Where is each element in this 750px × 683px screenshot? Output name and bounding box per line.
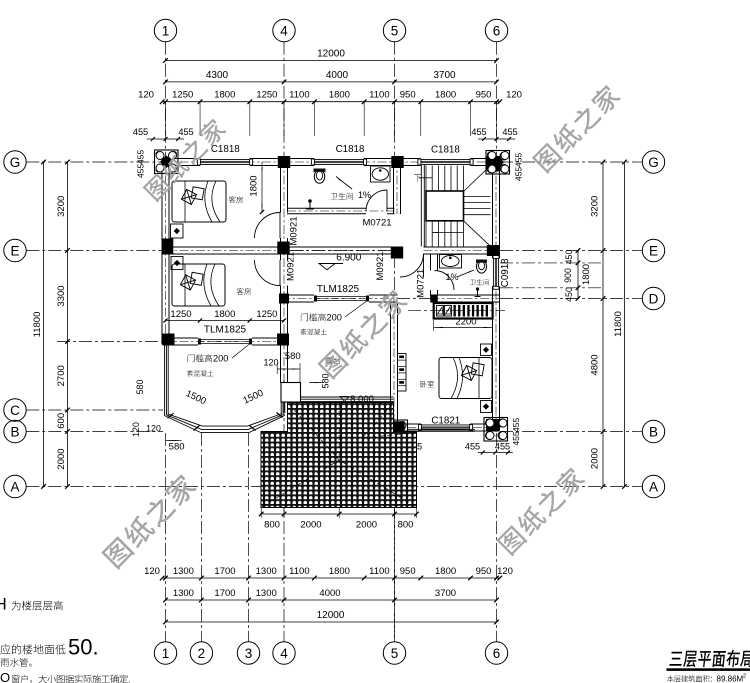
svg-text:H: H: [0, 595, 7, 614]
svg-text:2000: 2000: [56, 448, 67, 469]
svg-text:3: 3: [245, 646, 253, 661]
svg-text:3700: 3700: [433, 70, 456, 81]
svg-text:800: 800: [398, 520, 414, 531]
svg-text:M0921: M0921: [286, 252, 297, 281]
svg-text:455: 455: [514, 153, 524, 168]
svg-text:C1818: C1818: [211, 144, 240, 155]
bottom dimension chains: [162, 577, 500, 579]
svg-text:950: 950: [476, 90, 492, 101]
svg-text:A: A: [649, 479, 658, 494]
svg-text:C1818: C1818: [431, 145, 460, 156]
svg-text:11800: 11800: [32, 312, 43, 338]
doors: [255, 190, 455, 290]
svg-text:950: 950: [476, 566, 492, 577]
bathroom 2 fixtures: [440, 255, 462, 269]
svg-text:950: 950: [400, 566, 416, 577]
staircase: [426, 166, 491, 247]
svg-text:455: 455: [136, 164, 146, 179]
svg-text:455: 455: [133, 127, 148, 137]
tiled roof: [261, 403, 417, 508]
svg-text:1100: 1100: [289, 90, 309, 101]
svg-text:2: 2: [198, 646, 206, 661]
svg-text:1250: 1250: [170, 309, 191, 320]
svg-text:1800: 1800: [435, 90, 456, 101]
svg-text:120: 120: [497, 566, 513, 577]
bed guest room 2: [172, 264, 225, 306]
top dimension chains: [166, 60, 497, 62]
svg-text:4: 4: [280, 23, 288, 38]
svg-text:E: E: [649, 243, 658, 258]
svg-text:G: G: [648, 155, 659, 170]
svg-text:120: 120: [138, 90, 154, 101]
svg-text:1: 1: [162, 23, 170, 38]
svg-text:11800: 11800: [613, 311, 624, 337]
svg-text:1250: 1250: [256, 309, 277, 320]
svg-text:120: 120: [263, 358, 278, 368]
svg-text:C: C: [10, 403, 20, 418]
svg-text:900: 900: [563, 268, 573, 283]
svg-text:E: E: [10, 243, 19, 258]
svg-text:2700: 2700: [56, 365, 67, 386]
svg-text:1%: 1%: [445, 272, 458, 282]
svg-text:B: B: [10, 424, 19, 439]
svg-text:A: A: [10, 479, 19, 494]
svg-text:455: 455: [511, 418, 521, 433]
svg-text:4000: 4000: [319, 588, 340, 599]
svg-text:4000: 4000: [326, 70, 349, 81]
svg-text:450: 450: [564, 250, 574, 265]
svg-text:1700: 1700: [214, 566, 235, 577]
right dimension chains: [577, 251, 579, 299]
svg-text:1: 1: [162, 646, 170, 661]
svg-text:455: 455: [465, 442, 480, 452]
svg-text:1100: 1100: [369, 566, 389, 577]
svg-text:1300: 1300: [173, 588, 194, 599]
svg-text:455: 455: [136, 150, 146, 165]
svg-text:5: 5: [391, 646, 399, 661]
svg-text:455: 455: [514, 167, 524, 182]
svg-text:1300: 1300: [256, 588, 277, 599]
bay window railing: [165, 345, 285, 433]
svg-text:1300: 1300: [256, 566, 277, 577]
svg-text:4300: 4300: [206, 70, 229, 81]
interior dimensions: [261, 162, 263, 212]
svg-text:2: 2: [743, 674, 746, 680]
svg-text:120: 120: [146, 424, 161, 434]
lattice balustrade: [434, 303, 493, 319]
svg-text:G: G: [10, 155, 21, 170]
svg-text:580: 580: [135, 380, 145, 395]
svg-text:455: 455: [178, 127, 193, 137]
svg-text:1800: 1800: [214, 309, 235, 320]
svg-text:580: 580: [285, 351, 301, 362]
svg-text:1800: 1800: [329, 90, 350, 101]
svg-text:1%: 1%: [358, 190, 371, 200]
svg-text:C0918: C0918: [500, 258, 511, 287]
svg-text:580: 580: [169, 442, 185, 453]
svg-text:455: 455: [471, 127, 486, 137]
svg-text:6: 6: [493, 646, 501, 661]
svg-text:120: 120: [131, 422, 141, 437]
svg-text:2000: 2000: [590, 448, 601, 469]
svg-text:1800: 1800: [249, 175, 260, 196]
svg-text:6.900: 6.900: [336, 253, 361, 264]
windows: [200, 158, 250, 160]
svg-text:580: 580: [321, 373, 331, 388]
svg-text:1800: 1800: [581, 264, 592, 285]
svg-text:455: 455: [502, 127, 517, 137]
svg-text:1800: 1800: [329, 566, 350, 577]
svg-text:3300: 3300: [56, 285, 67, 306]
svg-text:1250: 1250: [172, 90, 193, 101]
svg-text:1800: 1800: [435, 566, 456, 577]
svg-text:50.: 50.: [68, 635, 99, 660]
grid axis bubbles: [154, 19, 176, 41]
svg-text:120: 120: [506, 90, 522, 101]
svg-text:800: 800: [264, 520, 280, 531]
terrace parapet: [284, 396, 394, 398]
svg-text:600: 600: [56, 413, 67, 429]
svg-text:D: D: [649, 291, 659, 306]
svg-text:TLM1825: TLM1825: [204, 325, 247, 336]
svg-text:M0721: M0721: [362, 218, 391, 229]
svg-text:6: 6: [493, 23, 501, 38]
svg-text:1700: 1700: [214, 588, 235, 599]
svg-text:C1818: C1818: [336, 144, 365, 155]
svg-text:3200: 3200: [590, 196, 601, 217]
bed guest room 1: [172, 181, 226, 222]
svg-text:1250: 1250: [256, 90, 277, 101]
svg-text:5: 5: [391, 23, 399, 38]
wardrobe: [398, 354, 407, 392]
svg-text:2000: 2000: [356, 520, 377, 531]
svg-text:3200: 3200: [56, 196, 67, 217]
left dimension chains: [67, 162, 69, 487]
svg-text:TLM1825: TLM1825: [317, 284, 360, 295]
svg-text:12000: 12000: [317, 49, 345, 60]
title: [669, 650, 750, 667]
bathroom 1 fixtures: [314, 170, 324, 184]
svg-text:1100: 1100: [289, 566, 309, 577]
svg-text:1300: 1300: [173, 566, 194, 577]
svg-text:89.86M: 89.86M: [717, 675, 744, 683]
svg-text:455: 455: [511, 431, 521, 446]
svg-text:4: 4: [280, 646, 288, 661]
structural columns: [278, 156, 290, 168]
svg-text:1800: 1800: [214, 90, 235, 101]
svg-text:950: 950: [400, 90, 416, 101]
svg-text:120: 120: [144, 566, 160, 577]
svg-text:200: 200: [213, 354, 228, 364]
svg-text:M0921: M0921: [375, 251, 386, 280]
svg-text:4800: 4800: [590, 354, 601, 375]
svg-text:M0721: M0721: [416, 269, 427, 298]
svg-text:3700: 3700: [435, 588, 456, 599]
walls: [163, 158, 201, 160]
svg-text:1100: 1100: [369, 90, 389, 101]
svg-text:450: 450: [564, 287, 574, 302]
bedside tables: [171, 224, 184, 238]
watermarks: [142, 116, 228, 202]
svg-text:2000: 2000: [300, 520, 321, 531]
svg-text:455: 455: [495, 442, 510, 452]
svg-text:M0921: M0921: [289, 216, 300, 245]
svg-text:12000: 12000: [317, 610, 345, 621]
svg-text:C1821: C1821: [431, 416, 460, 427]
svg-text:200: 200: [327, 313, 342, 323]
bed master bedroom: [439, 358, 492, 399]
svg-text:O: O: [0, 670, 10, 683]
svg-text:B: B: [649, 424, 658, 439]
decorative corner columns: [155, 150, 179, 174]
